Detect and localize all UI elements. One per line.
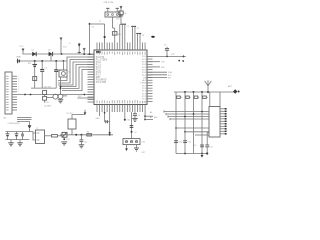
- U5 circle marker: [62, 72, 66, 76]
- capacitor C5a top bar: [131, 25, 133, 27]
- capacitor C3b: [166, 50, 168, 56]
- node end marks below VCC net: [178, 60, 180, 62]
- net stub SCL: [147, 74, 167, 76]
- Y1 right ground stub: [116, 9, 118, 13]
- wire jog horizontal: [105, 121, 110, 123]
- power arrow into bottom-left rail: [28, 125, 32, 129]
- node rail B BT1: [34, 60, 36, 62]
- wire bottom bus: [60, 134, 113, 136]
- net stub TXD1: [147, 61, 160, 63]
- capacitor C1 on XTAL1 line: [112, 32, 117, 35]
- capacitor C12: [80, 135, 82, 140]
- wire bus net A1: [58, 60, 94, 84]
- capacitor C16: [200, 144, 204, 146]
- wire VCC rail A: [23, 53, 95, 55]
- node rail A xtal drop: [89, 53, 91, 55]
- net stub SDA: [147, 71, 167, 73]
- node corner a: [144, 115, 146, 117]
- svg-text:ZTA 12.0M: ZTA 12.0M: [104, 1, 114, 4]
- arrester F3: [193, 92, 195, 154]
- wire XTAL2 net: [90, 23, 105, 25]
- svg-text:A9: A9: [150, 116, 152, 119]
- wire data bus L4: [170, 118, 209, 120]
- node rail v4: [201, 91, 203, 93]
- svg-text:C3: C3: [137, 28, 139, 30]
- node bus A3 / U5 tap: [60, 86, 62, 88]
- node antenna: [207, 91, 209, 93]
- svg-text:AD0: AD0: [154, 116, 158, 119]
- capacitor C7 below U1: [134, 112, 136, 114]
- wire U1 RST net: [77, 97, 94, 99]
- capacitor C17 drop from J2: [207, 133, 209, 146]
- wire J1 bundle b0: [17, 117, 32, 119]
- Y1 pin circles: [107, 14, 118, 16]
- svg-text:P3.1/TXD: P3.1/TXD: [96, 81, 107, 84]
- svg-text:C16: C16: [193, 145, 196, 147]
- wire K1 to bus: [71, 129, 73, 135]
- svg-text:BT1: BT1: [28, 63, 31, 65]
- svg-text:C15: C15: [188, 142, 191, 144]
- wire battery rail B: [17, 60, 67, 62]
- node rail supply tap: [61, 53, 63, 55]
- antenna E1: [207, 86, 209, 92]
- node rail v2: [184, 91, 186, 93]
- battery terminal symbol left: [17, 59, 19, 64]
- wire C8a to U1: [139, 34, 141, 43]
- wire rail to J2 top left: [209, 92, 211, 107]
- wire data bus L2: [166, 113, 209, 115]
- power flag VCC top: [120, 6, 123, 9]
- wire R5 to Q3: [58, 135, 63, 137]
- polarity mark blob: [151, 36, 155, 38]
- node bus relay: [75, 134, 77, 136]
- svg-text:T1: T1: [36, 128, 38, 130]
- node bus/vert crossings: [184, 116, 186, 118]
- wire rail1 to T1: [33, 132, 36, 141]
- resistor R6 body: [87, 134, 92, 136]
- resistor R3 body on long net: [43, 90, 47, 94]
- U1 left pins: [88, 55, 95, 103]
- wire long net J1 to U1: [17, 94, 94, 96]
- ground under C7: [132, 117, 138, 119]
- capacitor C13 series bars: [105, 120, 107, 123]
- svg-text:C17: C17: [210, 146, 213, 148]
- IC U1 MCU body: [94, 50, 147, 105]
- ceramic resonator Y1 body: [105, 12, 120, 17]
- wire XTAL2 drop to rail: [89, 24, 91, 54]
- svg-text:GND: GND: [96, 118, 101, 120]
- wire data bus L1: [164, 111, 209, 113]
- battery BT1: [34, 61, 36, 65]
- U1 right pins: [147, 56, 153, 101]
- connector J2 body: [209, 107, 220, 138]
- capacitor C6: [55, 61, 57, 70]
- arrester F2: [184, 92, 186, 154]
- svg-text:C8: C8: [142, 35, 144, 37]
- node rail B C6: [55, 60, 57, 62]
- wire jog to bottom bus: [109, 112, 111, 135]
- wire Q1 collector right: [63, 95, 67, 97]
- wire VCC net right: [147, 55, 184, 57]
- power flag supply at x61: [60, 38, 63, 41]
- J1 pin number labels: [18, 76, 19, 96]
- diode D2: [49, 52, 53, 56]
- diode D1: [32, 52, 36, 56]
- wire C3a to U1: [124, 24, 126, 42]
- node rail A VCC tap: [83, 53, 85, 55]
- capacitor C11: [22, 132, 24, 135]
- node CZ1 feed: [131, 131, 133, 133]
- U1 internal bottom pin-name tick labels: [97, 100, 145, 104]
- wire antenna rail: [174, 91, 237, 93]
- U1 top pins: [97, 43, 145, 51]
- arrester F1: [177, 96, 181, 98]
- electrolytic C9: [7, 132, 9, 134]
- wire T1 out to R5: [45, 135, 52, 137]
- node rail B C5: [41, 60, 43, 62]
- connector J1 body: [5, 72, 12, 114]
- node jog: [104, 112, 106, 114]
- node long net b: [30, 94, 32, 96]
- wire to Q2: [47, 97, 53, 99]
- capacitor C4 electrolytic body: [119, 11, 123, 14]
- wire data bus L6: [185, 131, 209, 133]
- C4 lower plate: [119, 15, 123, 17]
- wire corner stub right a: [145, 115, 153, 117]
- svg-text:ALE: ALE: [142, 79, 147, 82]
- terminal block CZ1 body: [123, 139, 140, 145]
- svg-text:VCC: VCC: [19, 46, 24, 48]
- svg-text:C4: C4: [124, 13, 126, 15]
- transformer T1 body: [36, 130, 45, 144]
- ground G2: [19, 140, 21, 143]
- power flag VCC mid: [83, 48, 86, 51]
- wire R3 to R4: [44, 95, 46, 97]
- Q3 emitter to ground: [63, 137, 65, 140]
- wire bottom rail 1: [5, 131, 33, 133]
- svg-text:A8: A8: [150, 111, 152, 114]
- ground under Q1: [58, 99, 64, 101]
- U1 pin-1 designator text: [96, 51, 101, 53]
- wire U1 corner net stub a: [144, 112, 146, 120]
- wire C7a to U1: [136, 34, 138, 43]
- capacitor C15: [183, 140, 187, 142]
- capacitor C6a top bar: [134, 25, 136, 27]
- svg-text:VBAT: VBAT: [16, 55, 22, 58]
- wire corner stub right b: [145, 119, 153, 121]
- wire rail B to U5: [62, 61, 64, 70]
- node xtal2 vertical: [103, 36, 105, 38]
- resistor R4 body: [43, 96, 47, 100]
- svg-text:C7: C7: [138, 115, 140, 117]
- capacitor C2 top bar: [121, 23, 123, 25]
- reset IC U5 body: [59, 70, 67, 77]
- wire bottom rail 2: [5, 139, 29, 141]
- wire R4 lead down: [44, 100, 46, 102]
- ground under Q3: [61, 141, 67, 143]
- J1 inner pin squares: [6, 76, 8, 110]
- net stub TXD below U1: [124, 112, 126, 119]
- J2 pins with pads: [220, 108, 227, 135]
- svg-text:R10 10K: R10 10K: [44, 86, 52, 88]
- ground G1: [10, 140, 12, 143]
- wire J1 bundle b2: [17, 122, 30, 126]
- CZ1 pin circles: [125, 141, 137, 143]
- svg-text:10u: 10u: [116, 18, 119, 20]
- node U5/bus junction: [60, 88, 62, 90]
- svg-text:VCC: VCC: [171, 54, 176, 56]
- transistor Q1 circle: [58, 94, 63, 99]
- wire U1 to CZ1: [131, 112, 133, 139]
- svg-text:VCC: VCC: [63, 47, 68, 49]
- ground arrow right bottom: [201, 154, 203, 156]
- wire rail A to rail B drop: [50, 54, 52, 61]
- arrester F4: [201, 92, 203, 154]
- svg-text:Q2 4N35: Q2 4N35: [44, 106, 51, 108]
- J1 pins: [12, 76, 17, 110]
- power arrow under CZ1: [126, 145, 128, 149]
- ground under CZ1: [136, 145, 138, 148]
- wire data bus L3: [168, 116, 209, 118]
- U1 internal top pin-name tick labels: [97, 52, 145, 56]
- resistor R5 body: [52, 135, 58, 137]
- svg-text:C3: C3: [164, 45, 166, 47]
- net stub INT: [147, 76, 167, 78]
- U1 bottom pins: [97, 105, 145, 113]
- svg-text:C14: C14: [179, 142, 182, 144]
- capacitor C3a top bar: [124, 23, 126, 25]
- svg-text:X2: X2: [92, 27, 94, 29]
- svg-text:D2: D2: [48, 49, 50, 51]
- node corner b: [144, 119, 146, 121]
- U1 internal left pin-name labels: [96, 56, 108, 84]
- wire rail end drop v1: [175, 92, 177, 154]
- wire bus net A4: [62, 67, 94, 88]
- node jog bus: [109, 132, 111, 134]
- svg-text:R3 1K: R3 1K: [44, 102, 50, 104]
- electrolytic C10: [16, 132, 18, 134]
- svg-text:Y1: Y1: [99, 21, 101, 23]
- Y1 left ground stub: [107, 9, 109, 13]
- relay K1 body: [68, 119, 76, 129]
- power arrow feed x79: [78, 43, 80, 54]
- wire rail to J2 top right: [219, 92, 221, 107]
- transistor Q3 body: [62, 132, 67, 137]
- svg-text:8: 8: [18, 94, 19, 96]
- node rail B U5: [63, 60, 65, 62]
- wire bus net A3: [61, 65, 95, 87]
- capacitor C14: [174, 140, 178, 142]
- wire K1 coil top: [72, 115, 85, 119]
- node rail v3: [193, 91, 195, 93]
- svg-text:R6: R6: [87, 132, 89, 134]
- wire bus net A5: [62, 70, 94, 91]
- capacitor C5: [41, 61, 43, 70]
- power arrow into K1: [84, 110, 86, 113]
- node C3 tap: [166, 56, 168, 58]
- wire Y1 center pin down to U1 XTAL1: [112, 17, 114, 28]
- wire C6a to U1: [134, 26, 136, 42]
- T1 inner ticks: [37, 132, 40, 134]
- wire J1 bundle b1: [17, 119, 32, 121]
- wire bus net A2: [58, 62, 94, 85]
- wire U1 pin to jog: [104, 112, 106, 122]
- wire U5 to Q1: [60, 77, 62, 94]
- svg-text:30p: 30p: [118, 34, 121, 36]
- node L5 tap: [175, 127, 177, 129]
- wire C5a to U1: [131, 26, 133, 42]
- wire data bus L7: [195, 134, 209, 136]
- net stub RXD1: [147, 66, 160, 68]
- junction node XTAL2: [88, 23, 90, 25]
- wire data bus L5: [176, 127, 209, 129]
- svg-text:C2: C2: [127, 26, 129, 28]
- wire bus net A0: [58, 57, 94, 81]
- node VCC right end: [182, 55, 184, 57]
- U1 internal right pin-name labels: [141, 56, 148, 103]
- capacitor C8a top bar: [139, 33, 141, 35]
- svg-text:C5: C5: [45, 67, 47, 69]
- power flag VCC left: [22, 49, 25, 52]
- capacitor C7a top bar: [136, 33, 138, 35]
- node bus C12: [80, 134, 82, 136]
- transistor Q2 circle: [53, 94, 58, 99]
- node long net c: [83, 94, 85, 96]
- wire C4 to U1 pin: [120, 14, 122, 16]
- inductor L1 right end: [233, 89, 237, 93]
- node L6 tap: [184, 131, 186, 133]
- svg-text:CON15A 2X8: CON15A 2X8: [8, 122, 21, 125]
- diode D6 series bars: [130, 125, 134, 127]
- svg-text:+5: +5: [69, 43, 71, 45]
- svg-text:CZ1: CZ1: [142, 142, 146, 144]
- svg-text:D1: D1: [32, 49, 34, 51]
- wire C2 to U1: [121, 24, 123, 42]
- ground under C12: [79, 144, 85, 146]
- fuse F5 body on battery line: [33, 77, 37, 81]
- svg-text:C12: C12: [84, 142, 87, 144]
- node long net a: [24, 94, 26, 96]
- wire battery ground bus: [31, 87, 56, 89]
- wire right bottom bus: [176, 153, 207, 155]
- wire U1 gnd stub: [99, 112, 101, 116]
- svg-text:9012: 9012: [66, 139, 70, 141]
